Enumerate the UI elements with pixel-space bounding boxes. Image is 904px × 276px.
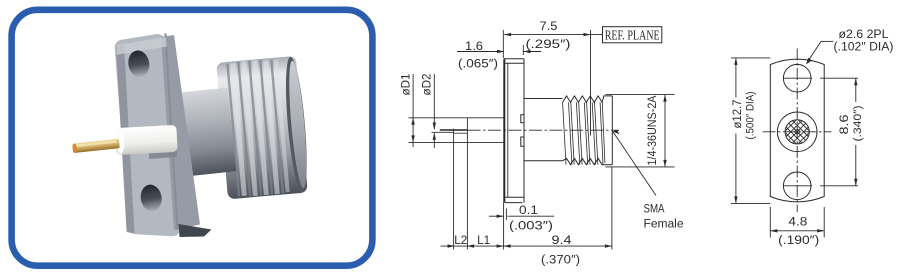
svg-text:(.500″ DIA): (.500″ DIA) [745, 92, 757, 140]
flange top chamfer [504, 62, 524, 64]
dim 8.6 line [854, 78, 857, 186]
top mounting hole [126, 49, 151, 79]
thread dim top extension [606, 94, 675, 96]
flange inner line [507, 63, 509, 197]
horizontal centerline [763, 131, 832, 133]
svg-text:øD2: øD2 [422, 74, 434, 96]
center pin circle [795, 130, 799, 134]
dim 1.6 [457, 50, 541, 53]
top hole extension 8.6 [820, 77, 858, 79]
top hole centerline left [783, 77, 812, 79]
svg-text:9.4: 9.4 [552, 235, 573, 247]
flange back groove lower [521, 137, 524, 146]
pin rear bottom line [454, 132, 468, 134]
thread dim bottom extension [606, 166, 675, 168]
extension line flange left top [502, 30, 504, 58]
extension body right bottom [611, 167, 613, 250]
neck cylinder between flange and barrel [175, 88, 236, 177]
flange top edge [504, 58, 524, 60]
pin top line [440, 129, 468, 131]
body right face [611, 96, 613, 165]
svg-text:Female: Female [644, 219, 684, 231]
svg-text:øD1: øD1 [401, 74, 413, 96]
pin bottom line + D2 extension [432, 131, 454, 133]
svg-text:REF. PLANE: REF. PLANE [605, 28, 660, 43]
svg-text:8.6: 8.6 [839, 115, 851, 135]
dia 12.7 top extension [731, 57, 770, 59]
flange left face [503, 59, 505, 203]
flange dark bottom face [179, 224, 212, 237]
centerline [447, 129, 619, 131]
dim 0.1 [489, 215, 554, 218]
flange plate [123, 42, 173, 228]
flange outline [770, 59, 824, 202]
svg-text:ø12.7: ø12.7 [732, 100, 744, 129]
svg-text:4.8: 4.8 [788, 217, 807, 229]
svg-text:(.370″): (.370″) [541, 255, 580, 267]
top mounting hole [783, 64, 811, 92]
dielectric top edge + D1 extension [409, 117, 505, 119]
bottom hole extension 8.6 [820, 185, 858, 187]
body circle [777, 112, 817, 152]
svg-text:7.5: 7.5 [540, 21, 558, 33]
svg-text:(.295″): (.295″) [526, 39, 571, 51]
svg-text:1/4-36UNS-2A: 1/4-36UNS-2A [647, 95, 659, 165]
dielectric bottom edge + D1 extension [409, 141, 505, 143]
svg-text:L2: L2 [454, 235, 467, 247]
bottom hole centerline left [783, 185, 812, 187]
extension 0.1 tick [505, 209, 507, 221]
extension line flange right top [522, 45, 524, 55]
body top edge [524, 98, 563, 100]
svg-text:SMA: SMA [644, 204, 665, 216]
bottom dimension chain line [441, 244, 612, 247]
blue rounded frame [12, 10, 373, 266]
flange right face [523, 59, 525, 203]
3D photo: connector render [72, 33, 311, 237]
dim 12.7 line [734, 58, 737, 204]
flange back groove upper [521, 115, 524, 123]
contact circle [785, 120, 809, 144]
dia 12.7 bottom extension [731, 202, 770, 204]
extension line REF plane [590, 30, 592, 136]
dim phiD2 line [433, 74, 436, 148]
svg-text:L1: L1 [477, 235, 490, 247]
thread ribs [226, 58, 290, 197]
thread crest bottom [563, 158, 613, 164]
thread crest top [563, 96, 613, 102]
knurl crosshatch [780, 102, 814, 162]
flange bottom chamfer [504, 196, 524, 198]
thread dim vertical line [663, 95, 666, 167]
vertical centerline [796, 47, 798, 213]
svg-text:(.003″): (.003″) [509, 221, 553, 233]
dim 4.8 extensions [769, 207, 771, 238]
svg-text:0.1: 0.1 [519, 205, 538, 217]
bottom mounting hole [139, 183, 164, 213]
dim phiD1 line [411, 74, 414, 147]
extension dielectric tip [466, 118, 468, 250]
gold center pin [72, 139, 120, 153]
dim 7.5 line [504, 33, 602, 36]
svg-text:(.340″): (.340″) [852, 106, 864, 142]
side section view [401, 21, 684, 267]
flange front-face right edge line [164, 33, 178, 229]
front view [731, 29, 894, 247]
body bottom edge [524, 160, 563, 162]
leader 2.6 holes [806, 41, 833, 64]
svg-text:(.102" DIA): (.102" DIA) [834, 42, 894, 54]
bottom mounting hole [783, 172, 811, 200]
PTFE dielectric [115, 125, 177, 155]
flange shading right [161, 35, 200, 230]
leader SMA [613, 132, 656, 196]
flange shading left [116, 45, 135, 234]
threaded barrel [216, 56, 311, 200]
flange bottom edge [505, 202, 523, 204]
flange top sheen [116, 37, 167, 55]
svg-text:1.6: 1.6 [465, 41, 483, 53]
PTFE shadow on plate [149, 150, 177, 160]
svg-text:(.065″): (.065″) [458, 59, 498, 71]
extension flange face bottom [503, 203, 505, 250]
barrel front rim [282, 56, 311, 193]
extension pin tip [453, 129, 455, 250]
svg-text:ø2.6 2PL: ø2.6 2PL [839, 29, 890, 41]
svg-text:(.190″): (.190″) [778, 235, 819, 247]
dim 4.8 line [770, 229, 824, 232]
thread flank lines [563, 102, 605, 164]
REF PLANE box [603, 27, 662, 43]
